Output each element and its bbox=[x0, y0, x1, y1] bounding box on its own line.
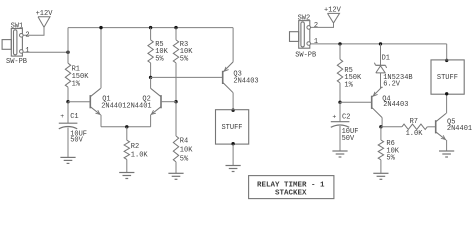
svg-text:50V: 50V bbox=[342, 135, 355, 143]
switch SW1 (SW-PB) bbox=[2, 22, 27, 66]
junction Q4 collector / R6 / R7 node bbox=[379, 125, 382, 128]
resistor R5 150K 1% (right) bbox=[337, 59, 362, 89]
wire Q2 base node to R4 bbox=[175, 102, 177, 136]
svg-text:STACKEX: STACKEX bbox=[275, 189, 307, 197]
junction D1 top at rail bbox=[379, 42, 382, 45]
wire R7 to Q5 base bbox=[427, 126, 435, 128]
svg-text:C1: C1 bbox=[70, 113, 78, 121]
wire Q2 collector to node B bbox=[150, 77, 152, 88]
transistor Q2 2N4401 bbox=[126, 88, 161, 115]
svg-text:2: 2 bbox=[25, 32, 29, 40]
diode D1 1N5234B zener bbox=[374, 44, 412, 89]
svg-text:STUFF: STUFF bbox=[437, 74, 458, 82]
wire rail down to STUFF (right) bbox=[446, 44, 448, 60]
capacitor C2 10UF 50V (electrolytic) bbox=[331, 114, 359, 143]
junction Q4 base node bbox=[338, 101, 341, 104]
box STUFF (left, relay) bbox=[216, 110, 249, 144]
junction STUFF box top (left) bbox=[231, 109, 234, 112]
svg-text:1.0K: 1.0K bbox=[131, 151, 149, 159]
junction Q1 base node bbox=[66, 100, 69, 103]
transistor Q1 2N4401 bbox=[90, 88, 126, 115]
wire +12V rail (right) bbox=[311, 43, 447, 45]
wire R4 to ground bbox=[175, 162, 177, 173]
pin 2 label SW2 bbox=[314, 22, 318, 30]
ground (R6) bbox=[373, 173, 388, 179]
wire Q3 collector down bbox=[232, 93, 234, 110]
svg-text:D1: D1 bbox=[382, 54, 390, 62]
wire Q1 collector to rail bbox=[100, 28, 102, 89]
wire D1 to Q4 emitter bbox=[380, 73, 382, 88]
ground (R2) bbox=[119, 173, 134, 179]
resistor R5 10K 5% bbox=[148, 40, 169, 63]
wire Q3 emitter to rail bbox=[232, 28, 234, 62]
junction R5 top at rail (right) bbox=[338, 42, 341, 45]
junction STUFF box bottom (right) bbox=[445, 92, 448, 95]
svg-text:RELAY TIMER - 1: RELAY TIMER - 1 bbox=[257, 182, 325, 190]
wire SW1 pin1 to node A bbox=[23, 51, 68, 53]
junction Q2 base node bbox=[174, 100, 177, 103]
svg-text:R2: R2 bbox=[131, 143, 139, 151]
svg-text:2N4403: 2N4403 bbox=[233, 78, 258, 86]
svg-text:2N4401: 2N4401 bbox=[126, 103, 151, 111]
resistor R4 10K 5% bbox=[173, 136, 193, 163]
svg-text:2N4401: 2N4401 bbox=[447, 125, 472, 133]
junction STUFF box top (right) bbox=[445, 59, 448, 62]
junction R5 top at rail bbox=[149, 26, 152, 29]
wire Q1 emitter down bbox=[100, 115, 102, 127]
wire Q5 collector up bbox=[446, 94, 448, 113]
resistor R3 10K 5% bbox=[173, 40, 193, 63]
wire SW2 pin2 to +12V bbox=[311, 23, 334, 27]
svg-text:5%: 5% bbox=[180, 155, 189, 163]
transistor Q5 2N4401 bbox=[436, 113, 472, 140]
svg-text:SW-PB: SW-PB bbox=[295, 52, 316, 60]
junction STUFF box bottom (left) bbox=[231, 142, 234, 145]
wire rail to R3 bbox=[175, 28, 177, 40]
svg-text:2N4401: 2N4401 bbox=[101, 103, 126, 111]
junction emitters / R2 top bbox=[125, 125, 128, 128]
wire Q4 base bbox=[340, 101, 372, 103]
svg-text:C2: C2 bbox=[342, 114, 350, 122]
svg-text:SW-PB: SW-PB bbox=[6, 58, 27, 66]
wire node to R6 bbox=[380, 127, 382, 140]
junction node B (R5/Q2 collector/Q3 base) bbox=[149, 76, 152, 79]
wire +12V rail (left) bbox=[68, 27, 233, 29]
pin 1 label SW1 bbox=[25, 47, 29, 55]
resistor R1 150K bbox=[65, 63, 89, 88]
junction R3 top at rail bbox=[174, 26, 177, 29]
wire Q4 base node to C2 bbox=[339, 102, 341, 121]
resistor R6 10K 5% bbox=[378, 140, 400, 163]
svg-text:1.0K: 1.0K bbox=[406, 130, 424, 138]
wire R2 to ground bbox=[126, 159, 128, 172]
svg-text:R4: R4 bbox=[180, 137, 188, 145]
ground (left STUFF) bbox=[226, 166, 241, 172]
svg-text:50V: 50V bbox=[70, 136, 83, 144]
svg-text:1: 1 bbox=[314, 38, 318, 46]
svg-text:SW1: SW1 bbox=[11, 22, 24, 30]
wire R5 to node B bbox=[150, 63, 152, 78]
svg-text:2N4403: 2N4403 bbox=[383, 101, 408, 109]
wire Q5 emitter to ground bbox=[446, 140, 448, 151]
transistor Q4 2N4403 bbox=[372, 87, 409, 118]
svg-text:5%: 5% bbox=[386, 155, 395, 163]
wire node to R7 bbox=[381, 126, 402, 128]
svg-text:2: 2 bbox=[314, 22, 318, 30]
svg-text:R7: R7 bbox=[410, 118, 418, 126]
wire Q4 emitter up bbox=[381, 87, 383, 88]
svg-text:1: 1 bbox=[25, 47, 29, 55]
resistor R2 1.0K bbox=[124, 140, 148, 159]
ground (C1) bbox=[60, 157, 75, 163]
wire node A vertical (rail to R1) bbox=[67, 28, 69, 64]
svg-text:1%: 1% bbox=[344, 82, 353, 90]
transistor Q3 2N4403 bbox=[223, 62, 259, 93]
svg-text:STUFF: STUFF bbox=[221, 124, 242, 132]
power +12V supply symbol (right) bbox=[324, 7, 342, 23]
wire R3 to Q2 base node bbox=[175, 63, 177, 102]
wire Q2 emitter down bbox=[150, 115, 152, 127]
svg-text:+: + bbox=[60, 113, 64, 120]
svg-text:6.2V: 6.2V bbox=[383, 80, 401, 88]
wire R6 to ground bbox=[380, 160, 382, 173]
wire junction to R2 bbox=[126, 127, 128, 140]
wire Q2 base bbox=[161, 101, 176, 103]
wire C2 to ground bbox=[339, 126, 341, 151]
wire STUFF box to ground (left) bbox=[232, 144, 234, 165]
pin 1 label SW2 bbox=[314, 38, 318, 46]
wire R5 to Q4 base node bbox=[339, 83, 341, 102]
svg-text:5%: 5% bbox=[155, 55, 164, 63]
ground (R4) bbox=[168, 173, 183, 179]
ground (Q5 emitter) bbox=[439, 151, 454, 157]
svg-text:+: + bbox=[332, 114, 336, 121]
wire R1 to Q1 base node bbox=[67, 87, 69, 102]
svg-text:1%: 1% bbox=[72, 80, 81, 88]
switch SW2 (SW-PB) bbox=[290, 15, 317, 60]
junction node A (R1 top / +12V feed) bbox=[66, 51, 69, 54]
power +12V supply symbol (left) bbox=[36, 10, 54, 27]
wire rail to R5 (right) bbox=[339, 44, 341, 59]
wire C1 to ground bbox=[67, 128, 69, 158]
box STUFF (right, relay) bbox=[431, 60, 464, 94]
svg-text:10K: 10K bbox=[180, 146, 193, 154]
svg-text:SW2: SW2 bbox=[298, 15, 311, 23]
wire rail to R5 bbox=[150, 28, 152, 40]
wire node B to Q3 base bbox=[151, 76, 223, 78]
wire Q1 base bbox=[68, 101, 90, 103]
pin 2 label SW1 bbox=[25, 32, 29, 40]
wire Q1 base node to C1 bbox=[67, 102, 69, 124]
ground (C2) bbox=[332, 151, 347, 157]
wire SW1 pin2 to +12V bbox=[23, 27, 44, 35]
resistor R7 1.0K bbox=[402, 118, 427, 138]
capacitor C1 10UF 50V (electrolytic) bbox=[59, 113, 87, 145]
wire emitter rail Q1-Q2 bbox=[101, 126, 151, 128]
junction Q1 collector at rail bbox=[99, 26, 102, 29]
title box RELAY TIMER - 1 / STACKEX bbox=[249, 176, 334, 199]
wire Q4 collector down bbox=[381, 118, 383, 127]
svg-text:5%: 5% bbox=[180, 55, 189, 63]
